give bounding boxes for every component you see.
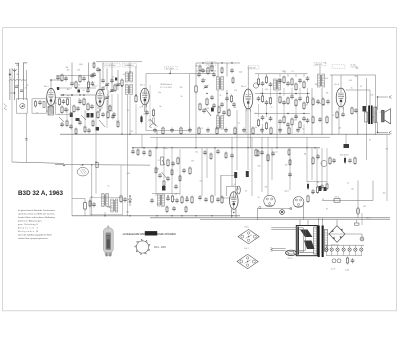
capacitor det — [257, 96, 261, 101]
dark knot 2 — [78, 90, 81, 93]
tube Rö4 IF amp — [244, 89, 253, 112]
capacitor z8 — [232, 102, 236, 107]
tube Rö5 output EL84 — [336, 88, 346, 109]
svg-text:50: 50 — [302, 128, 304, 130]
junction — [195, 147, 196, 148]
wire — [144, 105, 146, 112]
resistor det — [257, 119, 259, 128]
svg-text:125: 125 — [200, 181, 203, 183]
padder capacitor — [101, 78, 105, 83]
wire — [88, 63, 90, 81]
capacitor — [145, 110, 149, 115]
resistor — [195, 85, 197, 94]
svg-text:10,7 MHz: 10,7 MHz — [166, 68, 174, 70]
wire — [279, 124, 281, 134]
resistor below Rö3 — [140, 115, 142, 124]
junction — [14, 92, 15, 93]
junction — [295, 93, 296, 94]
coupling capacitor — [15, 85, 18, 87]
wire — [171, 149, 173, 194]
capacitor f3 — [60, 122, 64, 127]
junction — [71, 94, 72, 95]
resistor det — [265, 122, 267, 131]
wire — [95, 95, 97, 162]
capacitor det — [294, 114, 298, 119]
resistor af2 — [163, 180, 165, 188]
wire — [214, 148, 216, 196]
junction — [143, 147, 144, 148]
bottom bus A — [72, 215, 240, 217]
electrolytic can — [360, 237, 364, 241]
resistor band-13 — [270, 127, 272, 136]
resistor det — [303, 102, 305, 111]
wire — [321, 88, 323, 135]
wire — [311, 148, 313, 180]
resistor u1 — [288, 149, 290, 157]
wire — [256, 208, 258, 219]
resistor f6 — [84, 126, 86, 134]
capacitor bt — [166, 196, 170, 201]
svg-text:30: 30 — [245, 190, 247, 192]
junction — [276, 147, 277, 148]
AF tie — [152, 193, 180, 195]
capacitor bt9 — [150, 198, 154, 203]
wire — [127, 166, 129, 216]
junction — [129, 134, 130, 135]
dashed range box — [103, 63, 120, 67]
svg-text:Rö 7: Rö 7 — [245, 248, 249, 250]
resistor y1 — [114, 84, 116, 93]
capacitor mc1 — [198, 195, 202, 200]
bus y134 — [60, 133, 390, 135]
svg-text:220: 220 — [206, 108, 209, 110]
svg-text:464 kHz: 464 kHz — [249, 67, 256, 69]
resistor mc3 — [289, 159, 291, 167]
resistor z2 — [211, 65, 213, 73]
resistor det — [283, 116, 285, 125]
osc resistor — [121, 79, 123, 88]
resistor — [329, 157, 331, 166]
wire — [316, 148, 318, 186]
junction — [377, 96, 378, 97]
resistor bt — [171, 195, 173, 204]
capacitor det — [269, 82, 273, 87]
switch contact — [150, 119, 156, 126]
junction — [63, 94, 64, 95]
loudspeaker — [382, 109, 391, 124]
capacitor mc4 — [288, 172, 292, 177]
wire — [267, 137, 269, 196]
mains transformer winding right — [324, 229, 327, 251]
svg-text:0,02: 0,02 — [127, 173, 130, 175]
antenna hook 4 — [23, 62, 27, 64]
wire — [356, 220, 358, 223]
svg-text:12: 12 — [332, 115, 334, 117]
wire — [60, 94, 96, 96]
svg-text:gram: gram — [285, 189, 290, 192]
bottom bus C — [200, 219, 390, 221]
tube Rö1 AF7 — [47, 88, 56, 108]
capacitor band-2 — [170, 128, 174, 133]
junction — [171, 147, 172, 148]
wire — [25, 70, 27, 100]
wire — [303, 124, 305, 134]
junction — [135, 94, 137, 96]
resistor — [354, 157, 356, 166]
resistor bt12 — [185, 206, 187, 214]
oscillator coil — [126, 72, 133, 82]
svg-text:500: 500 — [198, 73, 201, 75]
svg-text:90: 90 — [26, 85, 28, 87]
wire — [245, 109, 247, 134]
resistor mid2 — [177, 157, 179, 166]
junction — [99, 69, 101, 71]
wire — [345, 134, 347, 144]
wire — [195, 63, 197, 85]
svg-text:90: 90 — [369, 140, 371, 142]
resistor af1 — [155, 167, 157, 175]
svg-text:220 V: 220 V — [288, 258, 294, 260]
resistor x2 — [79, 75, 81, 84]
resistor x1 — [61, 74, 63, 83]
svg-text:gemessen. Abkürzungen:: gemessen. Abkürzungen: — [18, 219, 42, 222]
junction — [195, 215, 196, 216]
junction — [303, 113, 304, 114]
socket circle 1 — [264, 195, 275, 206]
capacitor k2 — [90, 73, 94, 78]
capacitor x4 — [64, 107, 68, 112]
wire — [327, 233, 329, 235]
svg-text:470: 470 — [161, 206, 164, 208]
capacitor y4 — [111, 114, 115, 119]
junction — [307, 93, 308, 94]
svg-text:0,1: 0,1 — [238, 122, 240, 124]
capacitor — [316, 99, 320, 104]
resistor — [312, 157, 314, 166]
svg-text:87,5-100 MHz: 87,5-100 MHz — [160, 87, 172, 89]
resistor z3 — [221, 67, 223, 75]
capacitor band-0 — [153, 128, 157, 133]
svg-text:40n: 40n — [294, 119, 297, 121]
resistor f7 — [92, 120, 94, 128]
tone cap — [162, 186, 166, 191]
svg-text:3k: 3k — [322, 199, 324, 201]
capacitor — [332, 158, 336, 163]
AF transformer a — [102, 194, 109, 207]
resistor x3 — [61, 106, 63, 115]
capacitor z6 — [212, 103, 216, 108]
capacitor ps — [351, 258, 355, 263]
voltage selector box — [296, 226, 317, 256]
svg-text:UKW-Einheit: UKW-Einheit — [160, 83, 172, 86]
tube Rö6 magic eye — [230, 192, 239, 212]
stage tie — [56, 75, 96, 77]
wire — [99, 107, 101, 112]
capacitor f6 — [87, 128, 91, 133]
svg-text:220: 220 — [211, 66, 214, 68]
wire — [336, 220, 338, 226]
capacitor band-8 — [224, 128, 228, 133]
svg-text:≈ 20 Ω: ≈ 20 Ω — [334, 197, 340, 199]
svg-text:4,7: 4,7 — [140, 107, 142, 109]
res lead — [72, 198, 85, 200]
svg-text:12: 12 — [78, 98, 80, 100]
svg-text:15k: 15k — [326, 93, 329, 95]
resistor det — [306, 96, 308, 105]
capacitor — [220, 102, 224, 107]
bypass capacitor — [78, 99, 82, 104]
capacitor band-12 — [260, 128, 264, 133]
resistor det — [261, 95, 263, 104]
capacitor — [318, 117, 322, 122]
resistor u1 — [257, 150, 259, 158]
AM IF transformer 3 — [318, 74, 325, 87]
IF transformer 1b — [217, 116, 224, 130]
junction — [63, 165, 64, 166]
svg-text:5k: 5k — [106, 69, 108, 71]
electrolytic on line — [356, 208, 359, 214]
wire — [129, 63, 131, 73]
trimmer capacitor — [105, 83, 110, 87]
svg-text:470: 470 — [356, 68, 359, 70]
tube socket diamond Rö6 — [238, 229, 259, 243]
wire — [95, 162, 97, 193]
svg-text:40n: 40n — [67, 95, 70, 97]
capacitor u1 — [230, 153, 234, 158]
junction — [163, 147, 164, 148]
wire — [25, 113, 27, 162]
svg-text:470: 470 — [234, 90, 237, 92]
wire — [343, 107, 345, 113]
capacitor det — [290, 94, 294, 99]
svg-text:500: 500 — [315, 84, 318, 86]
capacitor det — [269, 116, 273, 121]
capacitor x2 — [64, 76, 68, 81]
resistor bt5 — [191, 196, 193, 205]
capacitor det — [306, 118, 310, 123]
capacitor det — [261, 115, 265, 120]
junction — [143, 147, 144, 148]
wire — [206, 148, 208, 178]
capacitor band-4 — [188, 128, 192, 133]
capacitor x5 — [76, 106, 80, 111]
resistor bt8 — [221, 196, 223, 205]
svg-text:henden Werte sind bei dieser W: henden Werte sind bei dieser Wellenlage — [18, 216, 56, 219]
svg-text:10n: 10n — [234, 107, 237, 109]
switch contact z — [99, 120, 105, 127]
svg-text:1k: 1k — [217, 114, 219, 116]
svg-text:250: 250 — [237, 189, 240, 191]
trimmer capacitor — [204, 85, 209, 89]
wire — [357, 181, 359, 218]
resistor f8 — [109, 105, 111, 113]
bus y148 — [132, 147, 320, 149]
trimmer capacitor — [105, 96, 110, 100]
wire — [345, 233, 362, 235]
wire — [361, 234, 363, 237]
osc capacitor — [110, 78, 114, 83]
lamp row bottom line — [326, 255, 362, 257]
wire — [375, 75, 377, 135]
svg-text:220: 220 — [285, 164, 288, 166]
dark cap — [76, 118, 80, 121]
capacitor det — [278, 119, 282, 124]
switch contact y — [81, 115, 86, 120]
svg-text:0,05: 0,05 — [61, 124, 64, 126]
resistor right of sockets — [307, 183, 309, 191]
wire — [318, 218, 320, 226]
svg-text:4,7: 4,7 — [342, 97, 344, 99]
resistor z4 — [232, 77, 234, 85]
bus left y162 — [12, 162, 64, 163]
decoupling capacitor — [91, 81, 95, 86]
dashed label above Rö5 — [332, 65, 345, 68]
svg-text:220: 220 — [165, 148, 168, 150]
resistor det — [291, 78, 293, 87]
mains transformer winding left — [314, 227, 317, 254]
svg-text:Die in den Tabellen angegebene: Die in den Tabellen angegebenen Werte — [18, 233, 53, 236]
resistor det — [295, 99, 297, 108]
dark cap y — [96, 127, 100, 131]
svg-text:spielt das Gerät auf UKW. Die: spielt das Gerät auf UKW. Die nachste- — [18, 212, 55, 215]
svg-text:12: 12 — [324, 63, 326, 65]
capacitor — [210, 95, 214, 100]
resistor y2 — [97, 111, 99, 120]
capacitor ll2 — [92, 202, 96, 207]
resistor — [230, 95, 232, 104]
capacitor z5 — [202, 108, 206, 113]
svg-text:15k: 15k — [284, 117, 287, 119]
capacitor bt11 — [172, 206, 176, 211]
wire — [149, 85, 151, 128]
capacitor — [225, 96, 229, 101]
svg-text:250: 250 — [338, 128, 341, 130]
dashed label above Rö4 — [248, 66, 259, 69]
resistor band-9 — [234, 127, 236, 136]
svg-text:≈ 6 kΩ: ≈ 6 kΩ — [350, 64, 356, 66]
svg-text:40n: 40n — [67, 89, 70, 91]
wire — [120, 166, 122, 195]
resistor f5 — [75, 128, 77, 136]
resistor f9 — [117, 121, 119, 129]
capacitor mid — [171, 161, 175, 166]
svg-text:12: 12 — [78, 85, 80, 87]
svg-text:B3D 32 A, 1963: B3D 32 A, 1963 — [18, 190, 63, 197]
wire — [106, 100, 108, 128]
wire — [235, 209, 237, 218]
wire — [331, 75, 333, 135]
wire — [279, 74, 281, 77]
svg-text:0,02: 0,02 — [305, 104, 308, 106]
oscillator coil 2 — [126, 85, 133, 95]
junction — [233, 212, 234, 213]
tube Rö1 cathode resistor — [48, 107, 54, 116]
wire — [361, 213, 363, 225]
resistor — [326, 116, 328, 125]
svg-text:40n: 40n — [67, 70, 70, 72]
resistor band-5 — [198, 127, 200, 136]
svg-text:500: 500 — [258, 166, 261, 168]
capacitor band-16 — [296, 128, 300, 133]
sockets tie — [307, 181, 327, 183]
pickup jack hatch — [80, 170, 84, 175]
resistor det — [265, 76, 267, 85]
dashed label AM — [314, 62, 326, 65]
coupling capacitor — [62, 99, 66, 104]
capacitor z1 — [197, 72, 201, 77]
capacitor — [348, 158, 352, 163]
anode to transformer wire — [346, 89, 370, 91]
resistor — [83, 98, 85, 107]
wire — [226, 63, 228, 77]
svg-text:Meßpunkte W: Meßpunkte W — [18, 230, 39, 233]
wire — [261, 137, 263, 192]
resistor — [322, 98, 324, 107]
svg-text:25k: 25k — [109, 207, 112, 209]
capacitor det — [298, 96, 302, 101]
junction — [214, 147, 215, 148]
resistor x5 — [87, 103, 89, 112]
junction — [231, 62, 232, 63]
trimmer capacitor — [110, 89, 115, 93]
antenna tie — [10, 92, 15, 94]
input switch — [20, 103, 25, 108]
svg-text:70: 70 — [158, 160, 160, 162]
lamp strip line — [325, 244, 364, 246]
junction — [129, 71, 131, 73]
wire — [106, 70, 108, 90]
speaker terminal arrow 2 — [389, 131, 392, 134]
svg-text:50: 50 — [275, 152, 277, 154]
wire — [135, 104, 137, 134]
wire — [236, 110, 238, 170]
capacitor tp1 — [96, 67, 100, 72]
band filter box — [32, 99, 46, 113]
junction — [50, 79, 52, 81]
svg-text:50: 50 — [79, 64, 81, 66]
svg-text:4,7: 4,7 — [231, 186, 233, 188]
wire — [250, 109, 252, 148]
capacitor mc2 — [204, 197, 208, 202]
wire — [51, 79, 62, 81]
svg-text:5k: 5k — [220, 95, 222, 97]
svg-text:12: 12 — [201, 128, 203, 130]
wire — [121, 86, 123, 134]
wire — [299, 220, 301, 226]
junction — [377, 132, 378, 133]
electrolytic oval — [237, 186, 240, 194]
resistor z7 — [228, 109, 230, 118]
wire — [135, 66, 137, 95]
junction — [95, 162, 96, 163]
FM box marks — [155, 124, 158, 127]
bottom bus B — [150, 217, 390, 219]
resistor x4 — [73, 105, 75, 114]
resistor — [135, 95, 137, 104]
wire — [262, 124, 264, 134]
junction — [129, 195, 130, 196]
svg-text:6,8: 6,8 — [254, 113, 256, 115]
wire — [295, 74, 297, 77]
wire — [196, 70, 216, 72]
svg-text:470: 470 — [318, 103, 321, 105]
svg-text:8n: 8n — [317, 182, 319, 184]
capacitor — [201, 78, 205, 83]
capacitor — [123, 197, 127, 202]
capacitor f5 — [78, 120, 82, 125]
junction — [156, 215, 157, 216]
wire — [366, 78, 368, 160]
